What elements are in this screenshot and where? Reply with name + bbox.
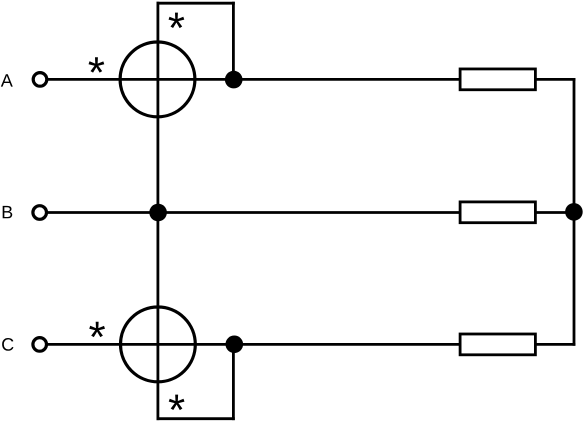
wire phase C resistor to right bus: [535, 343, 575, 346]
wire right bus vertical: [573, 78, 576, 346]
polarity mark W1 potential coil: [169, 13, 185, 28]
wire bottom loop horizontal: [157, 417, 235, 420]
polarity mark W2 potential coil: [169, 395, 185, 410]
wattmeter W1 current coil circle: [120, 42, 195, 117]
wire phase B resistor to right bus: [535, 211, 575, 214]
wire phase A horizontal: [47, 78, 460, 81]
junction node phase A / W1 potential: [225, 71, 243, 89]
terminal A: [33, 73, 47, 87]
polarity mark W1 current coil: [89, 57, 105, 72]
junction node phase C / W2 potential: [226, 336, 244, 354]
terminal C: [33, 338, 47, 352]
wire bottom loop vertical: [232, 344, 235, 420]
wire top loop horizontal: [157, 2, 235, 5]
wattmeter W2 current coil circle: [120, 307, 195, 382]
label B: [3, 206, 13, 218]
wire top loop vertical: [232, 2, 235, 80]
junction node load star point: [565, 203, 583, 221]
wire phase C horizontal: [47, 343, 460, 346]
polarity mark W2 current coil: [89, 322, 105, 337]
junction node phase B / potential bus: [149, 204, 167, 222]
wire phase A resistor to right bus: [535, 78, 575, 81]
wire phase B horizontal: [47, 211, 460, 214]
resistor load C: [460, 334, 535, 355]
label A: [1, 74, 13, 86]
label C: [2, 338, 13, 351]
resistor load A: [460, 69, 535, 90]
resistor load B: [460, 202, 535, 223]
terminal B: [33, 206, 47, 220]
wire vertical potential bus: [156, 2, 159, 420]
